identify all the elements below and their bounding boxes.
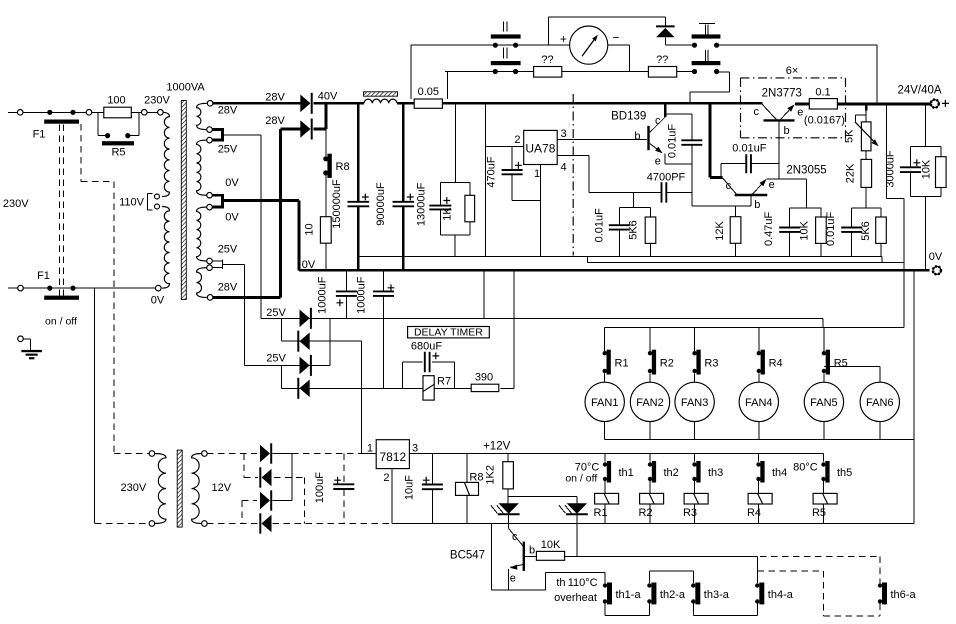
svg-text:110V: 110V: [119, 196, 145, 208]
svg-text:25V: 25V: [266, 307, 286, 319]
svg-text:28V: 28V: [218, 105, 238, 117]
svg-text:10uF: 10uF: [403, 475, 415, 500]
svg-text:R1: R1: [615, 358, 629, 370]
svg-text:R4: R4: [769, 358, 783, 370]
svg-text:10K: 10K: [541, 539, 561, 551]
svg-text:R7: R7: [437, 376, 451, 388]
svg-text:FAN6: FAN6: [866, 397, 894, 409]
svg-text:R5: R5: [111, 147, 125, 159]
svg-text:5K6: 5K6: [860, 221, 872, 241]
svg-text:230V: 230V: [3, 198, 29, 210]
svg-text:470uF: 470uF: [486, 156, 498, 187]
svg-text:R1: R1: [593, 507, 607, 519]
svg-text:th5: th5: [837, 467, 852, 479]
svg-text:R4: R4: [747, 507, 761, 519]
svg-text:28V: 28V: [265, 115, 285, 127]
svg-text:100uF: 100uF: [314, 472, 326, 503]
svg-text:0.01uF: 0.01uF: [666, 124, 678, 159]
svg-text:th3-a: th3-a: [704, 589, 730, 601]
svg-text:0.01uF: 0.01uF: [825, 211, 837, 246]
svg-text:b: b: [529, 545, 535, 557]
svg-text:4700PF: 4700PF: [647, 172, 686, 184]
svg-text:+12V: +12V: [483, 440, 511, 452]
svg-text:80°C: 80°C: [793, 461, 818, 473]
svg-text:1K2: 1K2: [484, 465, 496, 485]
svg-text:DELAY TIMER: DELAY TIMER: [414, 327, 483, 339]
svg-text:0.1: 0.1: [815, 87, 830, 99]
svg-text:0.01uF: 0.01uF: [732, 143, 767, 155]
svg-text:on / off: on / off: [45, 316, 77, 328]
svg-text:c: c: [753, 106, 759, 118]
svg-text:b: b: [754, 199, 760, 211]
svg-text:th2: th2: [664, 467, 679, 479]
svg-text:10: 10: [304, 223, 316, 235]
svg-text:6×: 6×: [786, 65, 799, 77]
svg-text:22K: 22K: [844, 163, 856, 183]
svg-text:3000uF: 3000uF: [885, 150, 897, 188]
svg-text:0V: 0V: [302, 259, 316, 271]
svg-text:c: c: [655, 115, 661, 127]
svg-text:2: 2: [383, 472, 389, 484]
svg-text:28V: 28V: [265, 92, 285, 104]
svg-text:2N3055: 2N3055: [786, 165, 826, 177]
svg-text:th1-a: th1-a: [616, 589, 642, 601]
svg-text:th6-a: th6-a: [891, 589, 917, 601]
svg-text:5K6: 5K6: [628, 220, 640, 240]
svg-text:R8: R8: [469, 472, 483, 484]
svg-text:0.05: 0.05: [418, 86, 439, 98]
svg-text:th4-a: th4-a: [768, 589, 794, 601]
svg-text:b: b: [783, 125, 789, 137]
svg-text:c: c: [512, 531, 518, 543]
svg-text:1000VA: 1000VA: [166, 82, 205, 94]
svg-text:230V: 230V: [121, 482, 147, 494]
svg-text:28V: 28V: [218, 282, 238, 294]
svg-text:th3: th3: [708, 467, 723, 479]
svg-text:5K: 5K: [844, 129, 856, 143]
svg-text:R5: R5: [834, 358, 848, 370]
svg-text:4: 4: [561, 162, 567, 174]
svg-text:150000uF: 150000uF: [331, 179, 343, 229]
svg-text:UA78: UA78: [525, 141, 555, 155]
svg-text:FAN4: FAN4: [745, 397, 773, 409]
svg-text:40V: 40V: [318, 90, 338, 102]
svg-text:1000uF: 1000uF: [317, 276, 329, 314]
svg-text:13000uF: 13000uF: [416, 182, 428, 226]
svg-text:FAN1: FAN1: [591, 397, 619, 409]
svg-text:??: ??: [541, 54, 553, 66]
svg-text:24V/40A: 24V/40A: [897, 85, 941, 97]
svg-text:25V: 25V: [266, 353, 286, 365]
svg-text:12K: 12K: [714, 221, 726, 241]
svg-text:0V: 0V: [225, 212, 239, 224]
svg-text:R5: R5: [812, 507, 826, 519]
svg-text:1K: 1K: [442, 207, 454, 221]
svg-text:R3: R3: [683, 507, 697, 519]
svg-text:0V: 0V: [225, 177, 239, 189]
svg-text:e: e: [769, 179, 775, 191]
svg-text:0V: 0V: [929, 251, 943, 263]
svg-text:b: b: [634, 131, 640, 143]
svg-text:10K: 10K: [799, 220, 811, 240]
svg-text:R3: R3: [704, 358, 718, 370]
svg-text:th4: th4: [772, 467, 787, 479]
svg-text:230V: 230V: [144, 95, 170, 107]
svg-text:390: 390: [475, 371, 493, 383]
svg-text:th 110°C: th 110°C: [556, 577, 597, 589]
svg-text:th2-a: th2-a: [660, 589, 686, 601]
svg-text:F1: F1: [37, 270, 50, 282]
svg-text:R8: R8: [336, 161, 350, 173]
svg-text:FAN5: FAN5: [810, 397, 838, 409]
svg-text:0V: 0V: [151, 295, 165, 307]
svg-text:e: e: [655, 155, 661, 167]
svg-text:c: c: [726, 180, 732, 192]
svg-text:overheat: overheat: [554, 592, 597, 604]
svg-text:on / off: on / off: [565, 472, 597, 484]
svg-text:25V: 25V: [218, 143, 238, 155]
svg-text:??: ??: [656, 54, 668, 66]
svg-text:(0.0167): (0.0167): [804, 115, 845, 127]
svg-text:1: 1: [367, 443, 373, 455]
svg-text:BC547: BC547: [450, 550, 485, 562]
svg-text:e: e: [510, 572, 516, 584]
svg-text:10K: 10K: [920, 159, 932, 179]
svg-text:7812: 7812: [379, 450, 406, 464]
svg-text:FAN3: FAN3: [681, 397, 709, 409]
svg-text:+: +: [560, 32, 567, 46]
svg-text:100: 100: [107, 95, 125, 107]
svg-text:25V: 25V: [218, 244, 238, 256]
svg-text:−: −: [612, 31, 619, 45]
svg-text:1: 1: [534, 168, 540, 180]
svg-text:e: e: [797, 107, 803, 119]
svg-text:1000uF: 1000uF: [355, 276, 367, 314]
svg-text:FAN2: FAN2: [636, 397, 664, 409]
svg-text:3: 3: [412, 443, 418, 455]
svg-text:F1: F1: [33, 129, 46, 141]
svg-text:90000uF: 90000uF: [375, 182, 387, 226]
svg-text:th1: th1: [619, 467, 634, 479]
svg-text:2N3773: 2N3773: [762, 87, 802, 99]
svg-text:R2: R2: [660, 358, 674, 370]
svg-text:2: 2: [514, 134, 520, 146]
svg-text:R2: R2: [638, 507, 652, 519]
svg-text:12V: 12V: [212, 482, 232, 494]
svg-text:680uF: 680uF: [411, 341, 442, 353]
svg-text:0.01uF: 0.01uF: [594, 208, 606, 243]
svg-text:0.47uF: 0.47uF: [763, 211, 775, 246]
svg-text:3: 3: [561, 128, 567, 140]
svg-text:BD139: BD139: [611, 110, 646, 122]
